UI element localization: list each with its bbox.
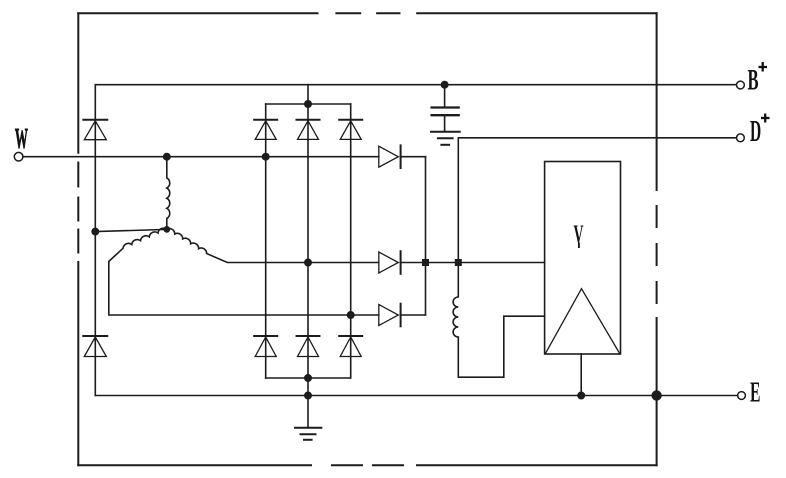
wire E line [95,395,737,397]
regulator U1 box [545,162,621,355]
diode D8 ground-to-neutral (left bottom) [83,232,107,396]
wire W line [23,156,379,158]
wire neutral line [95,229,167,231]
wire B+ bus left drop to neutral diode [94,85,96,232]
junction node E/case [652,391,661,400]
wire trio output bus [425,157,427,315]
case boundary left edge [77,13,79,465]
field winding L4 [453,263,545,378]
diode D5 (bridge lower, col2) [297,336,320,357]
case boundary right edge [656,13,658,465]
junction node phase/col3 [348,312,354,318]
wire column 2 phase V [307,139,309,378]
ground (main, below bridge) [295,428,321,440]
wire column 3 phase U [350,139,352,378]
diode D4 (bridge lower, col1) [254,336,277,357]
rectifier top bus [266,103,351,105]
svg-text:W: W [15,122,28,154]
diode D1 (bridge upper, col1) [254,120,277,140]
junction node W/L1 [164,154,170,160]
diode D6 (bridge lower, col3) [339,336,362,357]
wire B+ bus [95,84,736,86]
junction node B+/C1 [441,82,447,88]
regulator U1 output to E [580,354,582,396]
terminal B+ circle [737,81,745,89]
junction node W/col1 [263,154,269,160]
stator winding L1 (phase W, vertical) [167,157,170,230]
case boundary top edge [78,12,656,14]
diode D7 neutral-to-B+ (left top) [83,120,107,140]
capacitor C1 bottom lead [444,115,446,131]
ground (capacitor) [431,132,460,145]
capacitor C1 top lead [444,85,446,108]
wire E line to ground [307,396,309,428]
rectifier bottom bus [266,377,351,379]
junction node phase/col2 [305,259,311,265]
wire bottom bus to E line [307,378,309,396]
case boundary bottom edge [78,464,656,466]
junction node field tap [455,259,462,266]
junction node top bus/col2 [305,101,311,107]
svg-text:D: D [750,115,761,149]
terminal E circle [738,392,746,400]
wire column 1 phase W [265,139,267,378]
diode D9 (trio, phase W row) [379,145,426,168]
stator winding L2 (to phase line y315, lower-left) [109,228,379,315]
junction node E/ground [305,392,311,398]
wire D+ line [458,137,736,139]
terminal W circle [14,152,23,161]
svg-text:E: E [750,377,760,409]
stator winding L3 (to phase line y262.5, lower-right) [167,229,379,263]
capacitor C1 plates [432,108,459,116]
junction node E/regulator [578,392,584,398]
svg-text:B: B [748,63,759,96]
regulator U1 amplifier triangle [546,289,620,354]
diode D10 (trio, middle row) [379,251,545,274]
junction node star centre [164,227,169,232]
diode D3 (bridge upper, col3) [339,120,362,140]
diode D2 (bridge upper, col2) [297,120,320,140]
wire col2 riser to B+ bus [307,85,309,140]
junction node neutral/left column [92,228,98,234]
junction node trio bus [422,259,429,266]
diode D11 (trio, bottom row) [379,304,426,327]
junction node bottom bus/col2 [305,375,311,381]
terminal D+ circle [737,134,745,142]
wire D+ vertical to field node [457,138,459,263]
